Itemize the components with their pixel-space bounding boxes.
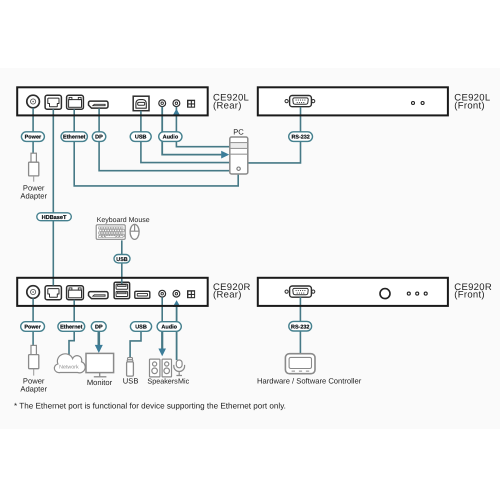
pill Power (top) [21, 132, 44, 142]
svg-text:(Front): (Front) [454, 100, 485, 111]
pill USB (keyboard/mouse) [114, 255, 130, 263]
svg-text:Ethernet: Ethernet [63, 135, 85, 141]
device body CE920R rear (fill) [17, 278, 208, 306]
svg-text:Adapter: Adapter [20, 385, 47, 394]
svg-text:USB: USB [116, 257, 127, 263]
wire power pill to adapter (bottom) [32, 331, 34, 345]
wire HDBaseT pill to CE920R [52, 221, 54, 286]
svg-text:Network: Network [59, 365, 79, 371]
svg-text:Ethernet: Ethernet [60, 325, 82, 331]
power adapter (top) [29, 153, 39, 182]
svg-text:Audio: Audio [163, 135, 179, 141]
wire DP arrow shaft to monitor [98, 331, 101, 345]
svg-text:Hardware / Software Controller: Hardware / Software Controller [257, 377, 362, 386]
device border CE920L rear [17, 87, 208, 115]
svg-text:HDBaseT: HDBaseT [42, 215, 67, 221]
svg-text:Adapter: Adapter [20, 192, 47, 201]
wire power pill to adapter (top) [32, 141, 34, 153]
wire power to pill (bottom) [32, 298, 34, 322]
svg-text:PC: PC [233, 127, 244, 136]
wire audio R jack to PC [176, 107, 229, 147]
svg-text:(Rear): (Rear) [213, 290, 242, 301]
dual USB-A port (CE920R rear) [114, 282, 130, 298]
wire mic to audio R jack [176, 307, 178, 361]
svg-text:(Front): (Front) [454, 290, 485, 301]
pill HDBaseT [37, 213, 72, 221]
power adapter (bottom) [29, 345, 39, 375]
pill Audio (bottom) [157, 322, 181, 332]
arrowhead into PC (audio L) [221, 151, 229, 159]
LED dots CE920R front [407, 292, 427, 295]
wire ethernet to network cloud [69, 300, 74, 357]
microphone [174, 360, 185, 376]
pill USB (top) [130, 132, 151, 142]
speaker 2 [162, 359, 171, 377]
speaker 1 [150, 359, 160, 377]
device body CE920L front (fill) [258, 87, 448, 115]
arrowhead down into monitor [95, 345, 103, 353]
svg-text:DP: DP [95, 135, 103, 141]
wire USB pill to USB plug [130, 331, 141, 357]
svg-text:Power: Power [25, 135, 42, 141]
svg-text:RS-232: RS-232 [291, 324, 309, 330]
pill DP (top) [92, 132, 106, 142]
wire HDBaseT vertical [52, 109, 54, 213]
svg-text:DP: DP [95, 325, 103, 331]
svg-text:USB: USB [123, 377, 139, 386]
keyboard [96, 225, 125, 240]
svg-text:* The Ethernet port is functio: * The Ethernet port is functional for de… [14, 401, 286, 410]
network cloud [54, 354, 85, 373]
LED dots CE920L front [412, 102, 425, 105]
pill RS-232 (top) [289, 132, 313, 142]
svg-text:USB: USB [135, 325, 147, 331]
svg-text:(Rear): (Rear) [213, 100, 242, 111]
pill Ethernet (top) [61, 132, 87, 142]
device body CE920L rear (fill) [17, 87, 208, 115]
button CE920R front [380, 289, 390, 299]
wire RS-232 top to PC [248, 107, 300, 163]
wire audio L jack through pill [161, 297, 163, 322]
wire USB to PC [141, 111, 229, 163]
pill RS-232 (bottom) [289, 321, 312, 331]
pill USB (bottom) [130, 322, 151, 332]
pill Ethernet (bottom) [58, 322, 85, 332]
wire audio L jack toward PC [162, 107, 221, 155]
wire USB pill to CE920R [121, 263, 123, 284]
wire power to pill (top) [32, 108, 34, 132]
wire RS-232 bottom to controller [299, 297, 301, 354]
svg-text:RS-232: RS-232 [291, 135, 309, 141]
ports CE920L rear [27, 95, 195, 109]
monitor [86, 353, 114, 376]
pill Power (bottom) [21, 322, 45, 332]
mouse [130, 224, 139, 239]
device border CE920R rear [17, 278, 208, 306]
wire keyboard to USB pill [121, 240, 123, 254]
arrowhead up into audio R (top device) [173, 109, 181, 116]
PC tower [230, 137, 248, 174]
DB9 port CE920R front [285, 286, 315, 297]
device body CE920R front (fill) [258, 278, 448, 306]
ports CE920R rear [27, 286, 195, 300]
device border CE920R front [258, 278, 448, 306]
svg-text:Power: Power [24, 325, 41, 331]
svg-text:Monitor: Monitor [87, 378, 113, 387]
svg-text:Keyboard Mouse: Keyboard Mouse [97, 216, 150, 224]
device border CE920L front [258, 87, 448, 115]
pill DP (bottom) [91, 322, 106, 332]
hardware/software controller [285, 354, 315, 374]
wire audio pill to speakers (arrow shaft) [161, 331, 163, 349]
USB plug icon [127, 358, 134, 377]
wire Ethernet to PC bottom [74, 109, 238, 186]
arrowhead down into speakers [158, 349, 166, 357]
pill Audio (top) [159, 132, 182, 142]
wire DP to PC [99, 108, 229, 170]
svg-text:Speakers: Speakers [147, 377, 178, 386]
DB9 port CE920L front [285, 96, 315, 107]
arrowhead up into audio R (bottom device) [173, 300, 181, 307]
svg-text:Mic: Mic [178, 377, 190, 386]
USB-B port (CE920L rear) [133, 96, 149, 111]
svg-text:Audio: Audio [161, 325, 177, 331]
svg-text:USB: USB [135, 135, 147, 141]
single USB-A port (CE920R rear) [135, 291, 150, 298]
